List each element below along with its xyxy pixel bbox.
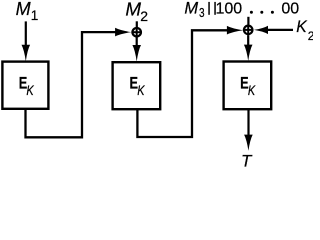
block cipher E_K #2: [113, 62, 161, 109]
svg-text:M: M: [125, 0, 141, 20]
label E_K #3: [240, 75, 256, 98]
block cipher E_K #1: [2, 62, 48, 109]
block cipher E_K #3: [224, 62, 272, 110]
arrowhead: feedback into XOR2: [115, 28, 131, 37]
svg-text:M: M: [184, 0, 198, 18]
svg-text:1: 1: [31, 8, 39, 23]
label E_K #2: [130, 75, 146, 98]
svg-text:K: K: [248, 83, 256, 99]
arrowhead: K2 into XOR3 (pointing left): [254, 26, 268, 34]
arrowhead: XOR3 into E_K block 3: [244, 45, 253, 61]
wire: E_K#3 output to T: [247, 109, 249, 140]
wire: M1 input arrow: [25, 21, 27, 50]
label M3 || 100...00: [184, 0, 299, 21]
wire: M2 down into XOR2: [136, 21, 138, 27]
wire: E_K#1 output feedback to XOR2: [26, 32, 119, 137]
svg-text:3: 3: [199, 7, 205, 20]
svg-text:K: K: [26, 83, 34, 99]
arrowhead: output T: [244, 135, 253, 151]
wire: E_K#2 output feedback to XOR3: [137, 30, 228, 137]
arrowhead: feedback into XOR3: [227, 26, 243, 35]
wire: M3 down into XOR3: [247, 17, 249, 25]
wire: XOR3 to E_K#3: [247, 35, 249, 50]
label M2: [125, 0, 148, 24]
svg-text:00: 00: [281, 1, 299, 18]
label E_K #1: [19, 75, 35, 98]
arrowhead: XOR2 into E_K block 2: [132, 45, 141, 62]
wire: XOR2 to E_K#2: [136, 38, 138, 51]
svg-text:2: 2: [140, 8, 148, 24]
svg-text:K: K: [296, 18, 307, 37]
label M1: [16, 0, 39, 23]
arrowhead: M1 into E_K block 1: [22, 45, 31, 62]
xor gate X2: [131, 27, 142, 38]
svg-text:100: 100: [216, 1, 243, 18]
svg-text:M: M: [16, 0, 31, 19]
svg-text:2: 2: [308, 29, 313, 43]
svg-text:K: K: [137, 83, 145, 99]
label K2: [296, 18, 315, 43]
svg-text:T: T: [241, 152, 253, 168]
xor gate X3: [243, 25, 254, 36]
wire: K2 into XOR3: [267, 29, 293, 31]
